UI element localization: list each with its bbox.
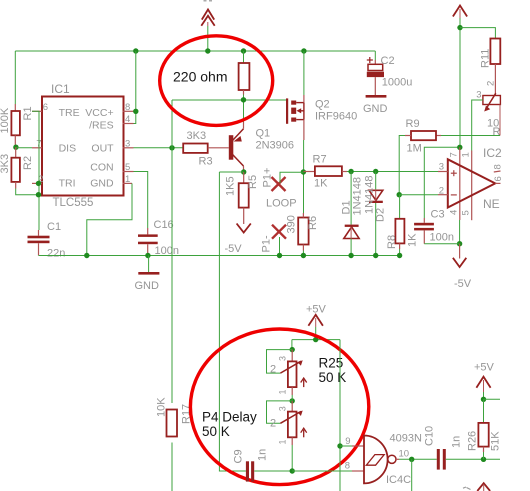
svg-text:C1: C1: [47, 221, 61, 233]
IC1 pin 6 stub: [32, 110, 42, 112]
junction +5V/potrail: [313, 337, 318, 342]
annotation 220 ohm text: [173, 69, 227, 85]
label 1n C10: [451, 436, 463, 448]
wire C9 to pots: [254, 470, 292, 472]
label pot pin 2: [486, 81, 497, 86]
junction R26 top: [481, 397, 486, 402]
wire gate net horiz: [172, 99, 286, 101]
annotation ellipse bottom: [190, 329, 368, 485]
wire C3 top net: [424, 147, 460, 218]
IC1 pin 4 stub: [123, 123, 134, 125]
svg-text:LOOP: LOOP: [266, 198, 297, 210]
svg-text:3: 3: [439, 162, 444, 173]
junction rail/D2: [373, 253, 378, 258]
label P1-: [261, 235, 273, 252]
junction pot1 top: [290, 347, 295, 352]
diode D1 1N4148: [344, 172, 359, 256]
supply -5V arrow below R5: [237, 208, 251, 233]
wire OUT net: [134, 147, 184, 149]
resistor 220ohm: [239, 51, 250, 100]
svg-text:-5V: -5V: [454, 278, 472, 290]
svg-text:VCC+: VCC+: [85, 107, 113, 119]
resistor R7: [304, 166, 348, 176]
svg-text:CON: CON: [90, 162, 113, 174]
svg-text:10: 10: [399, 449, 410, 460]
label Q1: [256, 128, 271, 140]
label +5V bottom right: [474, 362, 495, 374]
label 51K: [490, 431, 502, 451]
svg-text:R5: R5: [247, 175, 259, 189]
wire +5V down to pin9: [339, 340, 341, 491]
resistor R5: [239, 172, 249, 208]
svg-text:4: 4: [449, 210, 460, 215]
svg-text:R9: R9: [406, 118, 420, 130]
junction pin9 node: [337, 443, 342, 448]
label 10K R17: [156, 397, 168, 417]
junction rail/P1-: [277, 253, 282, 258]
svg-text:2: 2: [270, 364, 276, 376]
svg-text:1n: 1n: [257, 449, 269, 461]
op-amp IC2 triangle: [438, 159, 501, 207]
label pin10: [399, 449, 410, 460]
wire GND pin1 loop: [87, 183, 132, 255]
svg-text:NE: NE: [483, 197, 500, 211]
svg-text:3K3: 3K3: [0, 154, 11, 174]
svg-text:C3: C3: [431, 209, 445, 221]
label 1K R8: [407, 233, 419, 247]
label 100n: [155, 245, 179, 257]
svg-text:IC4C: IC4C: [386, 474, 411, 486]
pin P1+ cross: [272, 172, 304, 191]
svg-text:R2: R2: [22, 156, 34, 170]
svg-text:100K: 100K: [0, 107, 11, 133]
label C3: [431, 209, 445, 221]
svg-text:1: 1: [461, 152, 472, 157]
pin P1- cross: [272, 225, 286, 256]
junction gate/emitter: [241, 97, 246, 102]
svg-text:8: 8: [345, 461, 350, 472]
svg-text:1n: 1n: [451, 436, 463, 448]
label IRF9640: [315, 111, 357, 123]
wire pin9: [340, 445, 352, 447]
label 390: [286, 215, 298, 233]
wire pot1 top drop: [291, 340, 293, 350]
junction pin7 node: [457, 145, 462, 150]
supply +5V arrow mid: [308, 315, 323, 340]
svg-text:1M: 1M: [407, 143, 422, 155]
junction rail/IC1 VCC: [133, 48, 138, 53]
op-amp IC2 leads: [460, 147, 472, 220]
label 100K: [0, 107, 11, 133]
wire rail to C2: [374, 51, 376, 60]
wire pots top rail: [292, 339, 340, 341]
junction rail/R6: [301, 253, 306, 258]
wire R2 bottom to TRI net: [16, 189, 39, 195]
svg-text:1000u: 1000u: [382, 77, 413, 89]
label D2: [375, 208, 387, 222]
supply +5V arrow (double chevron) top: [201, 0, 214, 51]
label 100n C3: [430, 232, 454, 244]
wire rail drop to R1: [14, 51, 16, 104]
label LOOP: [266, 198, 297, 210]
wire OUT vertical long: [171, 100, 173, 491]
resistor R1: [11, 104, 20, 147]
junction rail/D1: [348, 253, 353, 258]
wire lower rail: [39, 255, 400, 257]
svg-text:P4 Delay: P4 Delay: [202, 410, 257, 425]
svg-text:100n: 100n: [430, 232, 454, 244]
svg-text:3: 3: [278, 406, 288, 411]
svg-text:50 K: 50 K: [319, 370, 347, 385]
IC1 pin 3 stub: [123, 147, 134, 149]
diode D2 1N4148: [369, 172, 383, 256]
wire pot2 loop: [267, 401, 293, 423]
junction R9/R8/pin2: [397, 192, 402, 197]
label NE5534: [483, 197, 500, 211]
capacitor C2 polarized: [367, 57, 384, 95]
resistor R2: [11, 147, 20, 188]
wire pot right to R9 net: [441, 105, 500, 136]
label R26: [467, 431, 479, 451]
svg-text:2: 2: [270, 418, 276, 430]
svg-text:220 ohm: 220 ohm: [173, 69, 227, 85]
label IC2: [483, 146, 502, 160]
label Q2: [315, 99, 330, 111]
supply -5V arrow right: [453, 244, 466, 267]
gate IC4C 4093 body: [352, 436, 396, 484]
svg-text:2: 2: [486, 81, 497, 86]
annotation P4 Delay text: [202, 410, 257, 425]
svg-text:390: 390: [286, 215, 298, 233]
junction OUT/vertical: [169, 145, 174, 150]
svg-text:6: 6: [493, 176, 504, 181]
IC1 pin 2 stub: [32, 182, 42, 184]
IC1 pin 5 stub: [123, 171, 134, 173]
svg-text:+5V: +5V: [474, 362, 495, 374]
label R8: [386, 235, 398, 249]
svg-text:TRI: TRI: [59, 178, 76, 190]
wire VCC+ /RES to rail: [134, 51, 136, 124]
capacitor C9: [246, 461, 254, 481]
svg-text:P1-: P1-: [261, 235, 273, 252]
resistor R8: [395, 195, 404, 256]
svg-text:5: 5: [461, 210, 472, 215]
wire NAND output: [396, 458, 437, 460]
junction rail/R8: [397, 253, 402, 258]
label TLC555: [53, 197, 94, 209]
junction rail/C16: [145, 253, 150, 258]
svg-text:+5V: +5V: [306, 304, 327, 316]
wire C10 to R26: [446, 458, 500, 460]
svg-text:Q1: Q1: [256, 128, 271, 140]
label 1K5: [225, 176, 237, 196]
junction net/D2: [373, 169, 378, 174]
junction R1/R2/DIS: [13, 145, 18, 150]
label R7: [313, 154, 327, 166]
svg-text:3: 3: [476, 90, 481, 101]
junction pin4/C3/-5V: [457, 241, 462, 246]
label 3K3 R3: [187, 130, 207, 142]
potentiometer P4 50K: [280, 401, 306, 471]
label 1000u: [382, 77, 413, 89]
junction rail/arrow: [205, 48, 210, 53]
IC1 pin 8 stub: [123, 110, 134, 112]
transistor Q2 IRF9640: [286, 98, 304, 123]
label pot2 pin1: [278, 439, 288, 444]
wire rail to NAND pin8: [292, 470, 352, 472]
svg-text:TLC555: TLC555: [53, 197, 94, 209]
svg-text:1K: 1K: [407, 233, 419, 247]
IC1 555 timer box: [42, 97, 124, 196]
label R6: [307, 216, 319, 230]
IC1 pin 7 stub: [32, 147, 42, 149]
capacitor C1: [28, 230, 50, 256]
label 22n: [47, 248, 65, 260]
resistor R26: [478, 399, 488, 459]
label R2: [22, 156, 34, 170]
label pot value 10: [487, 118, 499, 130]
wire pot left to opamp pin1: [472, 100, 483, 151]
svg-text:IRF9640: IRF9640: [315, 111, 357, 123]
label 1M: [407, 143, 422, 155]
label R17: [181, 404, 193, 424]
svg-text:-5V: -5V: [225, 243, 243, 255]
svg-text:C9: C9: [233, 449, 245, 463]
svg-text:2: 2: [439, 186, 444, 197]
svg-text:GND: GND: [363, 103, 388, 115]
label -5V right: [454, 278, 472, 290]
wire R7 node vertical: [303, 172, 305, 213]
svg-text:D2: D2: [375, 208, 387, 222]
label R3: [199, 156, 213, 168]
label pot1 pin2: [270, 364, 276, 376]
junction TRI pin2: [36, 181, 41, 186]
label 1N4148 D1: [352, 177, 364, 216]
svg-text:R8: R8: [386, 235, 398, 249]
svg-text:1N4148: 1N4148: [352, 177, 364, 216]
svg-text:GND: GND: [90, 178, 114, 190]
label pin9: [345, 436, 350, 447]
label pin8: [345, 461, 350, 472]
IC1 pin 1 stub: [123, 182, 132, 184]
capacitor C16: [138, 228, 158, 256]
junction TRI/R2: [36, 192, 41, 197]
ground GND below C16: [135, 256, 160, 293]
svg-text:R7: R7: [313, 154, 327, 166]
capacitor C10: [437, 449, 446, 470]
wire pot1-pot2: [291, 395, 293, 401]
label 2N3906: [256, 140, 295, 152]
label C2: [381, 55, 395, 67]
wire emitter node: [243, 100, 245, 122]
svg-text:IC1: IC1: [51, 82, 70, 96]
label R11: [480, 49, 492, 68]
junction +5V/R11: [457, 25, 462, 30]
annotation R25 text: [319, 356, 344, 371]
junction output node: [409, 457, 414, 462]
annotation 50K top text: [319, 370, 347, 385]
wire CON to C16: [134, 172, 148, 229]
wire pin4 down: [459, 220, 461, 244]
junction rail/220ohm: [241, 48, 246, 53]
wire to R11: [460, 28, 495, 39]
label R1: [22, 106, 34, 120]
label pot pin 3: [476, 90, 481, 101]
svg-text:R6: R6: [307, 216, 319, 230]
annotation ellipse top: [160, 36, 273, 126]
svg-text:TRE: TRE: [59, 107, 80, 119]
IC1 pin numbers: [36, 102, 130, 185]
wire +5V top rail: [15, 50, 375, 52]
svg-text:IC2: IC2: [483, 146, 502, 160]
label pot2 pin2: [270, 418, 276, 430]
op-amp pin numbers: [439, 152, 504, 215]
svg-text:C16: C16: [154, 219, 174, 231]
svg-text:GND: GND: [135, 280, 160, 292]
op-amp +/- marks: [451, 170, 457, 195]
annotation 50K bottom text: [202, 424, 230, 439]
junction rail/GNDloop: [84, 253, 89, 258]
wire left long vertical to C9: [219, 172, 246, 471]
svg-text:R: R: [493, 126, 501, 138]
svg-text:1K: 1K: [314, 178, 328, 190]
label C1: [47, 221, 61, 233]
wire Q2 source up: [303, 51, 305, 103]
svg-text:4093N: 4093N: [390, 433, 422, 445]
junction emitter/R5: [241, 169, 246, 174]
svg-text:1K5: 1K5: [225, 176, 237, 196]
resistor R11: [490, 39, 500, 96]
transistor Q1 2N3906: [229, 122, 244, 172]
label 4093N: [390, 433, 422, 445]
label pot1 pin3: [278, 356, 288, 361]
svg-text:R26: R26: [467, 431, 479, 451]
svg-text:OUT: OUT: [91, 142, 114, 154]
svg-text:51K: 51K: [490, 431, 502, 451]
wire DIS net: [16, 147, 32, 149]
wire Q2 drain down: [303, 120, 305, 172]
svg-text:R3: R3: [199, 156, 213, 168]
svg-text:7: 7: [449, 152, 460, 157]
label C16: [154, 219, 174, 231]
wire emitter node horiz: [219, 171, 243, 173]
svg-text:2N3906: 2N3906: [256, 140, 295, 152]
resistor R3: [183, 144, 229, 153]
wire R26 top right: [484, 398, 501, 400]
svg-text:Q2: Q2: [315, 99, 330, 111]
junction drain/R7/R6: [301, 169, 306, 174]
label P1+: [262, 168, 274, 188]
label pot1 pin1: [278, 389, 288, 394]
svg-text:6: 6: [43, 102, 48, 113]
svg-text:1: 1: [278, 389, 288, 394]
label +5V mid: [306, 304, 327, 316]
supply arrow bottom edge: [463, 483, 490, 491]
wire output down: [411, 459, 413, 491]
capacitor C3: [414, 218, 460, 244]
junction R26 bottom: [481, 457, 486, 462]
label D1: [341, 200, 353, 214]
wire R9 left down: [399, 136, 405, 195]
label C9: [233, 449, 245, 463]
svg-text:R1: R1: [22, 106, 34, 120]
svg-text:3: 3: [278, 356, 288, 361]
wire pot1 loop: [267, 350, 293, 374]
svg-text:C10: C10: [424, 426, 436, 446]
svg-text:10K: 10K: [156, 397, 168, 417]
svg-text:8: 8: [493, 164, 504, 169]
supply +5V arrow bottom right: [476, 377, 490, 400]
resistor R17: [167, 410, 178, 437]
svg-text:P1+: P1+: [262, 168, 274, 188]
label 1n C9: [257, 449, 269, 461]
label R5: [247, 175, 259, 189]
label pot name R: [493, 126, 501, 138]
ground GND below C2: [363, 95, 388, 115]
svg-text:9: 9: [345, 436, 350, 447]
supply +5V arrow top right: [453, 6, 467, 148]
svg-text:/RES: /RES: [89, 120, 114, 132]
svg-text:50 K: 50 K: [202, 424, 230, 439]
potentiometer 10K trimmer: [483, 93, 501, 111]
svg-text:3K3: 3K3: [187, 130, 207, 142]
svg-text:1: 1: [278, 439, 288, 444]
label -5V left: [225, 243, 243, 255]
label 1K R7: [314, 178, 328, 190]
junction pot1/pot2: [290, 398, 295, 403]
junction pots/rail: [290, 468, 295, 473]
svg-text:22n: 22n: [47, 248, 65, 260]
wire TRE-TRI vertical: [32, 111, 39, 230]
svg-text:C2: C2: [381, 55, 395, 67]
resistor R6: [298, 213, 308, 256]
junction net/D1: [348, 169, 353, 174]
wire R7 right to opamp pin3: [347, 171, 438, 173]
label 3K3: [0, 154, 11, 174]
svg-text:DIS: DIS: [59, 142, 77, 154]
potentiometer R25 50K: [280, 350, 306, 395]
label pot2 pin3: [278, 406, 288, 411]
label IC1: [51, 82, 70, 96]
resistor R9: [405, 131, 441, 140]
IC1 pin names: [59, 107, 115, 190]
svg-text:R11: R11: [480, 49, 492, 68]
label C10: [424, 426, 436, 446]
wire pin2 net: [399, 194, 438, 196]
junction rail/Q2 source: [301, 48, 306, 53]
label IC4C: [386, 474, 411, 486]
label R9: [406, 118, 420, 130]
junction pin8/pin4: [133, 109, 138, 114]
label 1N4148 D2: [364, 175, 376, 214]
